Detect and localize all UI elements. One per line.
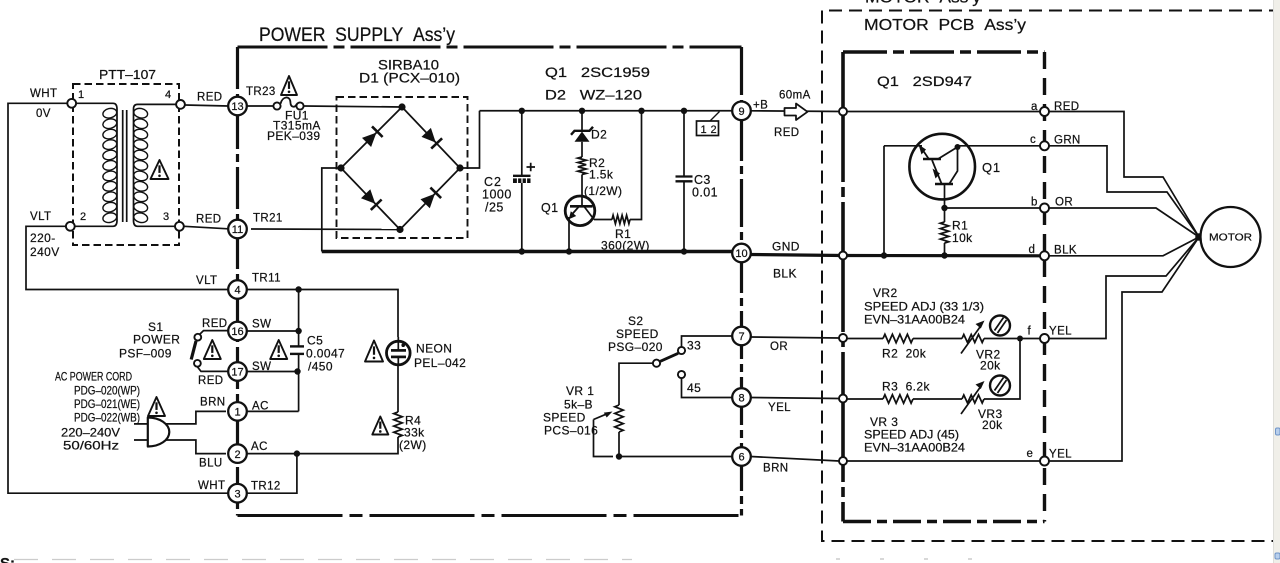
switch S1 contacts and lever	[194, 334, 201, 341]
wire +B node9 to motor pcb	[751, 110, 843, 113]
junction GND/C2	[519, 248, 525, 254]
svg-text:(2W): (2W)	[399, 438, 427, 452]
wire neon to R4	[397, 365, 399, 412]
svg-text:POWER: POWER	[133, 333, 180, 347]
resistor R4 33k (2W)	[394, 412, 402, 437]
svg-text:PDG–021(WE): PDG–021(WE)	[74, 397, 140, 411]
svg-text:TR11: TR11	[252, 273, 281, 285]
transformer terminal 1	[67, 99, 76, 108]
warning triangle near C5	[270, 340, 287, 359]
wire BRN node6 through pcb to e	[751, 457, 839, 462]
node 11	[228, 220, 247, 239]
terminal feedthrough (BRN)	[839, 457, 847, 465]
terminal f	[1040, 334, 1049, 343]
transformer terminal 4	[176, 100, 185, 109]
svg-text:YEL: YEL	[1049, 326, 1072, 338]
svg-text:PDG–022(WB): PDG–022(WB)	[74, 411, 140, 425]
svg-text:45: 45	[687, 381, 701, 395]
svg-text:4: 4	[165, 89, 172, 101]
svg-text:220–240V: 220–240V	[61, 426, 120, 440]
wire TR21 node11 to bridge bottom vertex	[251, 228, 400, 231]
transformer T1 core	[122, 110, 124, 222]
wire Q1 emitter to GND	[568, 217, 570, 252]
wire VR1 to node 6 BRN	[619, 456, 733, 458]
terminal d	[1040, 251, 1049, 260]
svg-text:2: 2	[234, 449, 240, 461]
wire d BLK across pcb (thick)	[843, 254, 1040, 258]
svg-text:PCS–016: PCS–016	[544, 424, 598, 438]
warning triangle near R4	[372, 417, 388, 435]
svg-text:S2: S2	[628, 314, 643, 328]
svg-text:POWER SUPPLY Ass’y: POWER SUPPLY Ass’y	[259, 25, 455, 46]
power supply assembly dash-dot border	[238, 46, 742, 49]
junction +B/C2	[519, 108, 525, 114]
svg-text:C5: C5	[307, 334, 323, 348]
scrollbar artifact blue marks	[1276, 428, 1280, 435]
svg-text:/450: /450	[308, 360, 333, 374]
wire R4 down to node2 line	[245, 437, 398, 454]
page edge gray strip	[1274, 0, 1280, 563]
svg-text:220-: 220-	[30, 231, 56, 245]
C2 plus sign	[527, 163, 536, 171]
svg-text:BRN: BRN	[200, 397, 225, 409]
svg-text:GND: GND	[772, 240, 800, 254]
capacitor C2 (electrolytic)	[521, 111, 523, 175]
svg-text:16: 16	[231, 326, 243, 338]
wire a RED node9 line across pcb	[843, 111, 1040, 113]
svg-text:d: d	[1029, 244, 1036, 256]
junction GND/Q1	[566, 248, 572, 254]
trimmer VR2 20k	[962, 335, 984, 343]
svg-text:EVN–31AA00B24: EVN–31AA00B24	[864, 441, 965, 455]
svg-text:10: 10	[735, 248, 747, 260]
transformer terminal 3	[175, 222, 184, 231]
faint cropped text rule bottom	[14, 559, 632, 561]
svg-text:RED: RED	[197, 92, 222, 104]
svg-text:4: 4	[234, 285, 240, 297]
wire c GRN collector line	[958, 145, 1041, 147]
svg-text:R2 20k: R2 20k	[882, 347, 927, 361]
wire S2 contact45 to node8	[682, 378, 733, 397]
wire BRN plug to node1	[166, 411, 226, 424]
wire bridge left vertex down to GND rail	[322, 168, 341, 252]
svg-text:GRN: GRN	[1054, 135, 1081, 147]
svg-text:RED: RED	[196, 214, 221, 226]
wire GND rail (thick)	[322, 250, 733, 253]
svg-text:20k: 20k	[982, 418, 1003, 432]
callout tag 12	[697, 121, 719, 136]
wire VR3 up to f junction	[984, 339, 1020, 400]
warning triangle near neon	[365, 341, 383, 362]
node 1	[228, 402, 247, 421]
wire node1 right up to C5 bottom junction	[245, 410, 299, 412]
svg-text:YEL: YEL	[1049, 449, 1072, 461]
capacitor C3 0.01	[683, 111, 685, 177]
junction SW16/C5	[295, 328, 301, 334]
svg-text:OR: OR	[1055, 197, 1073, 209]
current arrow 60mA	[785, 104, 808, 121]
svg-text:3: 3	[163, 211, 170, 223]
wire b OR from emitter	[945, 207, 1041, 209]
junction node2-line/TR12 branch	[294, 450, 300, 456]
S2 common contact	[653, 360, 660, 367]
svg-text:Q1: Q1	[541, 201, 558, 215]
svg-text:240V: 240V	[30, 245, 60, 259]
svg-text:1 2: 1 2	[701, 124, 718, 136]
node 4	[228, 280, 247, 299]
svg-text:0.01: 0.01	[692, 186, 718, 200]
svg-text:50/60Hz: 50/60Hz	[63, 439, 119, 453]
wire RED terminal4 to node 13	[185, 105, 228, 106]
junction +B/C3	[681, 108, 687, 114]
svg-text:VLT: VLT	[196, 275, 217, 287]
svg-text:9: 9	[738, 106, 744, 118]
junction +B/R1	[638, 108, 644, 114]
wire OR node7 to R2	[751, 337, 839, 338]
neon lamp PEL-042	[387, 341, 411, 365]
svg-text:S:: S:	[0, 555, 15, 563]
terminal feedthrough on pcb edge (+B)	[839, 108, 847, 116]
svg-text:Q1 2SD947: Q1 2SD947	[877, 73, 972, 89]
svg-text:SPEED: SPEED	[616, 327, 659, 341]
wire BLU plug to node2	[166, 440, 226, 454]
S2 contact 45	[678, 371, 685, 378]
wire S2 common to VR1 top	[619, 363, 653, 405]
wire node13 to fuse	[247, 105, 274, 107]
svg-text:7: 7	[738, 331, 744, 343]
transistor Q1 2SC1959	[570, 205, 593, 208]
svg-text:2: 2	[80, 211, 87, 223]
svg-text:3: 3	[234, 488, 240, 500]
wire node7 to S2 contact 33	[682, 336, 733, 347]
svg-text:60mA: 60mA	[779, 90, 811, 102]
node 9	[732, 102, 751, 121]
svg-text:VR2: VR2	[873, 286, 898, 300]
motor assembly outer dashed border	[822, 11, 1280, 542]
svg-text:1.5k: 1.5k	[589, 168, 614, 182]
svg-text:c: c	[1030, 134, 1036, 146]
svg-text:WHT: WHT	[30, 88, 57, 100]
svg-text:SPEED: SPEED	[543, 411, 586, 425]
wire bridge right vertex up to +B rail	[460, 111, 480, 168]
svg-text:R3 6.2k: R3 6.2k	[882, 380, 930, 394]
svg-text:(1/2W): (1/2W)	[584, 184, 622, 198]
junction TR11/C5 branch	[295, 286, 301, 292]
wire TR12 branch down to node3	[246, 454, 297, 494]
svg-text:1: 1	[234, 407, 240, 419]
transformer T1 secondary winding	[134, 104, 181, 226]
node 3	[228, 484, 247, 503]
darlington Q1 2SD947	[884, 145, 922, 147]
svg-text:TR12: TR12	[251, 481, 281, 493]
node 8	[732, 388, 751, 407]
svg-text:Q1: Q1	[982, 160, 1001, 175]
bridge diode top-right	[422, 128, 436, 143]
svg-text:1000: 1000	[482, 188, 512, 202]
resistor R1 360(2W)	[594, 219, 612, 221]
junction SW17/C5	[294, 368, 300, 374]
node 17	[228, 362, 247, 381]
svg-text:VLT: VLT	[30, 211, 51, 223]
transformer PTT-107 dashed box	[73, 84, 179, 245]
svg-text:360(2W): 360(2W)	[601, 239, 650, 253]
fuse FU1	[273, 102, 280, 109]
svg-text:10k: 10k	[952, 231, 973, 245]
svg-text:MOTOR: MOTOR	[1209, 232, 1252, 244]
node 16	[228, 322, 247, 341]
motor M1	[1201, 207, 1261, 267]
svg-text:RED: RED	[774, 127, 799, 139]
svg-text:TR21: TR21	[253, 213, 283, 225]
wire BLK node10 to motor pcb	[751, 255, 843, 256]
junction R1/BLK	[941, 252, 947, 258]
svg-text:b: b	[1031, 197, 1038, 209]
svg-text:RED: RED	[202, 318, 227, 330]
svg-text:20k: 20k	[980, 359, 1001, 373]
svg-text:BLU: BLU	[199, 458, 223, 470]
wire WHT neutral from terminal1 down left side to node 3	[8, 103, 228, 493]
motor PCB assembly dash-dot border	[843, 50, 1045, 54]
wire VLT from terminal2 to node 4	[26, 226, 229, 289]
svg-text:PTT–107: PTT–107	[99, 68, 156, 82]
svg-text:8: 8	[738, 393, 744, 405]
trimmer VR3 20k	[962, 395, 984, 403]
terminal feedthrough (OR)	[839, 334, 847, 342]
svg-text:VR 1: VR 1	[566, 384, 594, 398]
svg-text:PEK–039: PEK–039	[267, 129, 321, 143]
svg-text:PEL–042: PEL–042	[414, 356, 466, 370]
node 7	[732, 327, 751, 346]
wire YEL f harness to motor	[1049, 237, 1199, 339]
svg-text:13: 13	[231, 101, 243, 113]
AC plug symbol	[148, 418, 170, 447]
wire YEL e harness to motor	[1049, 237, 1199, 461]
resistor R1 10k	[940, 222, 948, 243]
wire C5 branch vertical	[298, 290, 300, 346]
node 6	[732, 447, 751, 466]
wire RED harness to motor	[1049, 112, 1199, 238]
warning triangle inside transformer	[151, 160, 169, 179]
zener diode D2	[581, 111, 583, 131]
svg-text:BLK: BLK	[773, 267, 797, 281]
svg-text:WHT: WHT	[198, 480, 225, 492]
warning triangle near plug	[148, 397, 165, 416]
junction +B/D2	[579, 108, 585, 114]
svg-text:AC: AC	[251, 441, 268, 453]
motor hub junction	[1195, 233, 1203, 241]
bridge diamond edges	[341, 107, 460, 230]
terminal e	[1040, 457, 1049, 466]
terminal feedthrough on pcb edge (BLK)	[839, 252, 847, 260]
resistor R2 1.5k	[578, 157, 586, 175]
svg-text:D1 (PCX–010): D1 (PCX–010)	[359, 71, 460, 86]
svg-text:11: 11	[232, 224, 243, 236]
bridge rectifier D1 dashed box	[337, 97, 468, 238]
svg-text:Q1 2SC1959: Q1 2SC1959	[545, 64, 650, 80]
svg-text:AC: AC	[252, 401, 269, 413]
terminal b	[1040, 204, 1049, 213]
wire BLK harness to motor	[1049, 237, 1199, 256]
potentiometer VR1 5k-B	[615, 405, 623, 432]
junction GND/C3	[681, 248, 687, 254]
svg-text:33: 33	[687, 339, 701, 353]
wire RED terminal3 to node 11	[184, 226, 228, 229]
svg-text:PSF–009: PSF–009	[119, 347, 172, 361]
junction emitter/b-wire	[941, 205, 947, 211]
node 2	[228, 444, 247, 463]
svg-text:/25: /25	[485, 201, 504, 215]
svg-text:PSG–020: PSG–020	[608, 340, 663, 354]
svg-text:TR23: TR23	[246, 86, 276, 98]
svg-text:RED: RED	[198, 375, 223, 387]
wire OR harness to motor	[1049, 208, 1199, 237]
svg-text:EVN–31AA00B24: EVN–31AA00B24	[864, 313, 965, 327]
S2 lever	[660, 353, 678, 361]
VR1 wiper arrow	[594, 414, 608, 420]
svg-text:OR: OR	[770, 341, 788, 353]
wire fuse to bridge top vertex	[304, 106, 403, 107]
terminal a	[1040, 107, 1049, 116]
svg-text:SPEED ADJ (33 1/3): SPEED ADJ (33 1/3)	[864, 300, 984, 314]
bridge vertex junctions	[398, 103, 405, 110]
svg-text:a: a	[1031, 101, 1038, 113]
bridge diode bottom-right	[421, 194, 435, 209]
node 13	[228, 97, 247, 116]
svg-text:BLK: BLK	[1054, 245, 1077, 257]
warning triangle near S1	[204, 340, 221, 359]
node 10	[732, 244, 751, 263]
svg-text:SPEED ADJ (45): SPEED ADJ (45)	[864, 428, 959, 442]
wire GRN harness to motor	[1049, 146, 1199, 237]
resistor R2 20k	[883, 334, 913, 342]
wire YEL node8 to R3	[751, 398, 839, 399]
svg-text:f: f	[1028, 326, 1032, 338]
wire node17 to switch bottom contact	[197, 367, 228, 372]
bridge diode left-bottom	[361, 189, 375, 204]
resistor R3 6.2k	[883, 395, 913, 403]
capacitor C5 0.0047/450	[290, 345, 304, 347]
junction VR1/node6 wire	[616, 453, 622, 459]
svg-text:+B: +B	[753, 100, 768, 112]
svg-text:MOTOR Ass’y: MOTOR Ass’y	[865, 0, 981, 7]
wire node16 right to C5	[247, 330, 299, 332]
svg-text:MOTOR PCB Ass’y: MOTOR PCB Ass’y	[864, 17, 1026, 34]
terminal c	[1040, 141, 1049, 150]
svg-text:YEL: YEL	[768, 402, 791, 414]
svg-text:AC POWER CORD: AC POWER CORD	[55, 370, 132, 384]
svg-text:D2 WZ–120: D2 WZ–120	[545, 87, 642, 103]
svg-text:1: 1	[78, 89, 85, 101]
svg-text:e: e	[1027, 448, 1034, 460]
terminal feedthrough (node8)	[839, 395, 847, 403]
svg-text:SW: SW	[252, 319, 271, 331]
svg-text:17: 17	[231, 367, 243, 379]
svg-text:0V: 0V	[36, 108, 51, 120]
svg-text:PDG–020(WP): PDG–020(WP)	[74, 384, 140, 398]
wire node16 to switch top contact	[200, 331, 229, 335]
junction VR2/VR3	[1017, 336, 1023, 342]
svg-text:NEON: NEON	[416, 342, 452, 356]
bridge diode left-top	[362, 133, 376, 147]
S2 contact 33	[678, 347, 685, 354]
junction base/BLK	[881, 252, 887, 258]
wire node4 TR11 to neon branch	[247, 290, 398, 338]
svg-text:BRN: BRN	[763, 463, 788, 475]
wire +B rail	[480, 110, 734, 112]
svg-text:D2: D2	[591, 128, 607, 142]
wire node17 right to C5	[247, 371, 298, 373]
svg-text:6: 6	[738, 452, 744, 464]
warning triangle at fuse	[281, 76, 297, 95]
transformer T1 primary winding	[70, 103, 117, 226]
transformer terminal 2	[66, 222, 75, 231]
svg-text:5k–B: 5k–B	[564, 398, 593, 412]
